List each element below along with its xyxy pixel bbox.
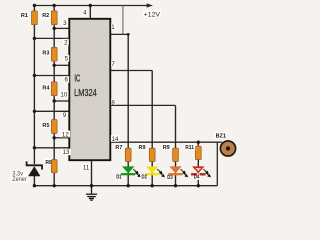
- pin 1 label: [111, 24, 116, 31]
- node D1 ground junction: [127, 184, 130, 187]
- resistor R4: [51, 82, 57, 96]
- wire D4 column: [197, 160, 199, 186]
- node R11 junction on pin14 wire: [197, 141, 200, 144]
- resistor label R1: [20, 12, 29, 19]
- wire buzzer drop to ground rail: [216, 142, 218, 186]
- LED D2 yellow: [145, 166, 164, 176]
- pin 5 label: [63, 55, 69, 62]
- resistor R1: [32, 11, 38, 25]
- LED D4 red: [191, 166, 210, 176]
- svg-text:9: 9: [63, 112, 67, 119]
- svg-text:D3: D3: [167, 175, 173, 181]
- svg-text:LM324: LM324: [74, 88, 97, 99]
- wire pin14 horizontal to buzzer: [110, 141, 222, 143]
- wire pin1 vertical to R7: [127, 34, 129, 148]
- wire pin7 vertical to R8: [151, 71, 153, 149]
- svg-text:5: 5: [65, 56, 69, 63]
- buzzer BZ1: [220, 141, 235, 156]
- pin 3 label: [62, 20, 68, 27]
- node R1 top junction: [33, 4, 36, 7]
- svg-text:1: 1: [111, 24, 115, 31]
- +12V label: [143, 10, 162, 17]
- pin 7 label: [111, 60, 116, 67]
- svg-text:2: 2: [64, 39, 68, 46]
- +12V arrowhead: [147, 3, 153, 7]
- wire pin11 stub: [91, 160, 93, 186]
- node R2 top junction: [53, 4, 56, 7]
- node pin10 tap junction: [53, 99, 56, 102]
- svg-text:BZ1: BZ1: [216, 133, 227, 139]
- pin 14 label: [111, 135, 119, 142]
- resistor label R7: [114, 144, 123, 151]
- LED label D3: [166, 175, 174, 180]
- node pin13 reference junction: [33, 146, 36, 149]
- resistor R9: [173, 148, 179, 161]
- svg-text:10: 10: [60, 91, 67, 98]
- resistor R2: [51, 11, 57, 25]
- svg-text:13: 13: [63, 149, 70, 156]
- wire D1 column: [127, 162, 129, 186]
- svg-text:7: 7: [111, 61, 115, 68]
- node pin9 reference junction: [33, 110, 36, 113]
- node pin1 corner: [127, 33, 130, 36]
- svg-text:D4: D4: [194, 175, 200, 181]
- svg-text:R1: R1: [21, 13, 29, 19]
- resistor label R5: [41, 121, 50, 128]
- node pin3 tap junction: [53, 27, 56, 30]
- ground: [86, 186, 97, 201]
- svg-text:+12V: +12V: [144, 11, 161, 18]
- pin 10 label: [59, 91, 68, 98]
- resistor label R11: [184, 144, 195, 151]
- node pin12 tap junction: [53, 136, 56, 139]
- wire pin4 stub: [89, 6, 91, 20]
- wire zener to ground rail: [33, 176, 35, 186]
- svg-text:12: 12: [62, 131, 69, 138]
- resistor label R9 (third): [162, 144, 171, 151]
- pin 6 label: [63, 76, 69, 83]
- resistor R7: [125, 148, 131, 161]
- node pin11 ground junction: [90, 184, 93, 187]
- LED D3 orange: [168, 166, 187, 176]
- wire pin1 horizontal: [110, 33, 128, 35]
- svg-text:R4: R4: [42, 85, 50, 91]
- LED label D2: [140, 175, 148, 180]
- svg-text:R9: R9: [163, 145, 171, 151]
- svg-text:14: 14: [112, 136, 119, 143]
- svg-text:R11: R11: [185, 145, 194, 151]
- node D4 ground junction: [197, 184, 200, 187]
- resistor label R3: [41, 49, 50, 56]
- svg-text:R6: R6: [45, 160, 52, 166]
- wire pin5: [54, 64, 69, 66]
- buzzer label BZ1: [214, 132, 227, 139]
- node D2 ground junction: [151, 184, 154, 187]
- pin 12 label: [61, 131, 70, 138]
- svg-text:D1: D1: [116, 175, 122, 181]
- svg-text:R7: R7: [115, 145, 122, 151]
- op-amp IC U1 LM324: [69, 19, 110, 160]
- resistor R6: [51, 160, 57, 173]
- wire top rail drop to pin1 wire: [122, 6, 124, 35]
- node pin4 supply junction: [89, 4, 92, 7]
- wire pin10: [54, 100, 69, 102]
- svg-text:8: 8: [111, 99, 115, 106]
- svg-text:3: 3: [63, 20, 67, 27]
- wire +12V top rail: [34, 5, 148, 7]
- node zener ground junction: [33, 184, 36, 187]
- svg-text:R9: R9: [139, 145, 147, 151]
- resistor label R4: [41, 84, 50, 91]
- wire pin9: [34, 110, 69, 112]
- LED label D4: [193, 175, 201, 180]
- node D3 ground junction: [174, 184, 177, 187]
- svg-text:6: 6: [65, 77, 69, 84]
- svg-text:R2: R2: [42, 13, 49, 19]
- resistor R5: [51, 120, 57, 134]
- resistor label R2: [41, 12, 50, 19]
- wire pin2: [34, 37, 69, 39]
- wire divider column B (R2-R6 chain): [53, 6, 55, 186]
- wire pin8 vertical to R9: [175, 105, 177, 148]
- resistor label R9 (second): [137, 144, 146, 151]
- wire divider column A (R1/zener column): [33, 6, 35, 165]
- wire pin3: [54, 27, 69, 29]
- resistor label R6: [44, 158, 51, 165]
- wire ground rail: [34, 185, 217, 187]
- wire D3 column: [175, 162, 177, 186]
- svg-text:IC: IC: [74, 74, 80, 85]
- node R6 ground junction: [53, 184, 56, 187]
- LED label D1: [115, 175, 123, 180]
- resistor R11: [195, 146, 201, 159]
- wire D2 column: [151, 162, 153, 186]
- resistor R8 (marked R9): [149, 148, 155, 161]
- zener diode ZD 3.3v: [27, 161, 42, 176]
- wire pin6: [34, 75, 69, 77]
- zener value label 3.3v Zener: [11, 170, 28, 182]
- resistor R3: [51, 47, 57, 61]
- svg-text:D2: D2: [142, 175, 148, 181]
- svg-text:Zener: Zener: [12, 177, 26, 183]
- wire pin8 horizontal: [110, 104, 176, 106]
- wire pin12: [54, 137, 69, 139]
- LED D1 green: [121, 166, 140, 176]
- node pin5 tap junction: [53, 64, 56, 67]
- svg-text:4: 4: [83, 9, 87, 16]
- svg-text:R3: R3: [42, 51, 50, 57]
- svg-text:11: 11: [83, 165, 90, 172]
- node pin6 reference junction: [33, 74, 36, 77]
- pin 9 label: [62, 112, 68, 118]
- pin 11 label: [81, 164, 90, 171]
- pin 13 label: [61, 149, 70, 156]
- wire pin7 horizontal: [110, 70, 152, 72]
- wire pin13: [34, 147, 69, 149]
- svg-text:R5: R5: [42, 123, 50, 129]
- node pin2 reference junction: [33, 37, 36, 40]
- pin 2 label: [63, 39, 69, 46]
- pin 4 label: [82, 9, 88, 16]
- pin 8 label: [111, 99, 116, 105]
- wire R11 stub: [197, 142, 199, 146]
